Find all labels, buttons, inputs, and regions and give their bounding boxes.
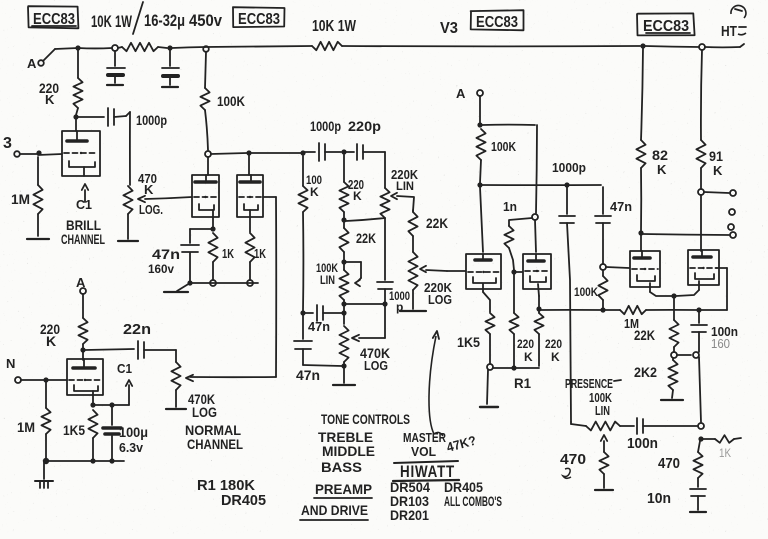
svg-text:VOL: VOL: [411, 444, 436, 459]
svg-text:DR201: DR201: [390, 507, 429, 523]
svg-text:91: 91: [709, 148, 723, 164]
svg-text:ECC83: ECC83: [476, 14, 518, 31]
svg-text:6.3v: 6.3v: [119, 440, 144, 455]
svg-text:LOG: LOG: [428, 292, 452, 307]
svg-text:R1: R1: [514, 375, 531, 391]
svg-text:47n: 47n: [152, 246, 180, 262]
svg-text:1000p: 1000p: [310, 118, 341, 134]
svg-text:1n: 1n: [503, 199, 517, 214]
svg-text:K: K: [713, 163, 723, 178]
svg-text:82: 82: [652, 147, 668, 163]
svg-text:16-32μ: 16-32μ: [144, 11, 185, 30]
svg-text:1M: 1M: [11, 191, 30, 207]
svg-text:K: K: [46, 333, 56, 349]
svg-text:V3: V3: [440, 20, 458, 37]
svg-text:A: A: [456, 86, 466, 101]
svg-text:2K2: 2K2: [634, 364, 657, 380]
svg-text:10n: 10n: [647, 490, 671, 507]
svg-text:1000p: 1000p: [136, 112, 167, 128]
svg-text:LOG: LOG: [192, 404, 217, 420]
svg-text:100μ: 100μ: [119, 424, 148, 440]
svg-text:1000p: 1000p: [552, 160, 586, 175]
svg-text:3: 3: [3, 135, 12, 152]
svg-text:AND DRIVE: AND DRIVE: [301, 502, 368, 518]
svg-text:47n: 47n: [610, 199, 632, 214]
svg-text:470: 470: [658, 455, 680, 472]
svg-text:470: 470: [560, 451, 586, 468]
svg-text:22n: 22n: [123, 321, 151, 338]
svg-text:ECC83: ECC83: [238, 11, 280, 28]
svg-text:450v: 450v: [189, 11, 222, 30]
svg-text:1K: 1K: [254, 246, 266, 261]
svg-text:22K: 22K: [356, 230, 376, 246]
svg-text:220p: 220p: [348, 118, 381, 134]
svg-text:160v: 160v: [148, 262, 174, 276]
svg-text:K: K: [524, 350, 533, 364]
svg-text:DR405: DR405: [221, 492, 266, 509]
svg-text:1K5: 1K5: [63, 422, 85, 438]
svg-text:47n: 47n: [308, 319, 330, 334]
svg-text:TONE CONTROLS: TONE CONTROLS: [321, 411, 410, 427]
svg-text:CHANNEL: CHANNEL: [61, 231, 105, 247]
svg-text:1M: 1M: [17, 419, 35, 435]
svg-text:10K 1W: 10K 1W: [312, 18, 357, 35]
svg-text:HT: HT: [721, 23, 737, 40]
svg-text:K: K: [144, 182, 154, 197]
svg-text:K: K: [310, 185, 319, 199]
svg-text:C1: C1: [76, 197, 92, 212]
svg-text:100K: 100K: [491, 139, 516, 154]
svg-text:100K: 100K: [217, 93, 245, 109]
svg-text:N: N: [6, 356, 15, 371]
svg-text:100K: 100K: [574, 285, 598, 299]
svg-text:160: 160: [711, 336, 730, 351]
svg-text:K: K: [657, 162, 667, 177]
svg-text:K: K: [45, 92, 55, 107]
svg-text:MASTER: MASTER: [403, 430, 446, 445]
svg-text:K: K: [551, 350, 560, 364]
svg-text:ALL COMBO'S: ALL COMBO'S: [444, 493, 502, 509]
svg-text:1K: 1K: [222, 246, 234, 261]
svg-text:PREAMP: PREAMP: [315, 481, 372, 497]
svg-text:220: 220: [517, 337, 534, 351]
svg-text:100n: 100n: [627, 435, 658, 452]
svg-text:LOG: LOG: [364, 358, 388, 373]
svg-text:A: A: [27, 56, 37, 71]
svg-text:1K5: 1K5: [457, 334, 480, 350]
svg-text:220: 220: [545, 337, 562, 351]
svg-text:22K: 22K: [426, 215, 448, 231]
svg-text:PRESENCE: PRESENCE: [565, 376, 613, 391]
svg-text:C1: C1: [117, 361, 132, 376]
svg-text:MIDDLE: MIDDLE: [322, 443, 375, 459]
svg-text:LIN: LIN: [595, 403, 610, 418]
svg-text:CHANNEL: CHANNEL: [187, 436, 243, 452]
svg-text:K: K: [353, 189, 362, 203]
svg-text:LOG.: LOG.: [139, 202, 163, 217]
svg-text:BASS: BASS: [321, 459, 362, 475]
svg-text:10K 1W: 10K 1W: [91, 12, 133, 31]
svg-text:LIN: LIN: [320, 273, 335, 287]
svg-text:22K: 22K: [634, 327, 655, 343]
svg-text:1K: 1K: [719, 446, 731, 460]
svg-text:47n: 47n: [296, 367, 320, 383]
svg-text:LIN: LIN: [396, 179, 414, 193]
